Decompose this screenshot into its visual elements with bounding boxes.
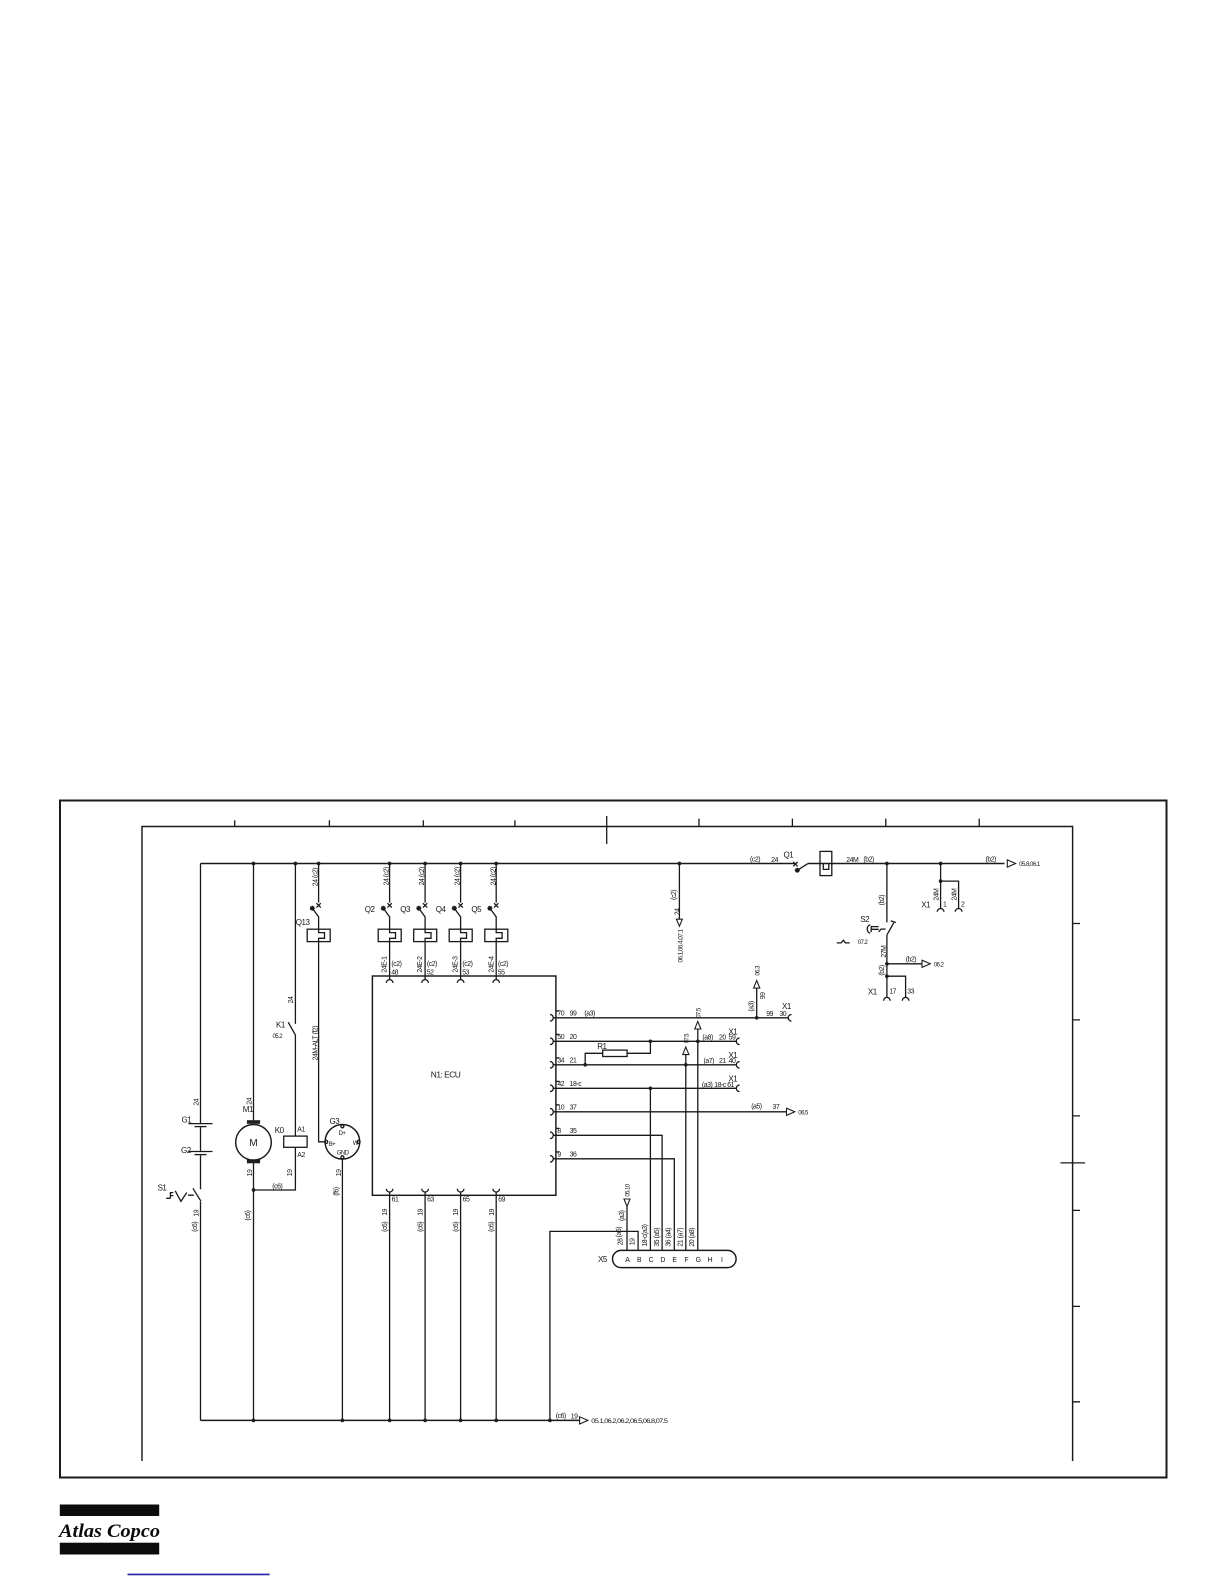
svg-text:65: 65 bbox=[463, 1197, 470, 1204]
ECU pin 53 net 24E-3 (c2) bbox=[453, 956, 473, 983]
svg-text:C: C bbox=[649, 1257, 654, 1264]
node ground bus junctions bbox=[252, 1419, 552, 1423]
node X1 17/33 junction bbox=[885, 974, 889, 978]
svg-text:99: 99 bbox=[766, 1011, 773, 1018]
connector X1 pin 33 bbox=[887, 976, 915, 1001]
svg-text:70: 70 bbox=[557, 1011, 564, 1018]
wire 24 (c2) reference drop bbox=[671, 864, 681, 920]
node 21/R1 junction bbox=[583, 1063, 587, 1067]
wire M1 column 24 bbox=[243, 864, 254, 1121]
svg-text:24M: 24M bbox=[952, 888, 959, 901]
svg-text:36: 36 bbox=[570, 1152, 577, 1159]
relay coil K0 bbox=[275, 1126, 307, 1147]
svg-text:19: 19 bbox=[336, 1169, 343, 1176]
ECU pin 55 net 24E-4 (c2) bbox=[488, 956, 508, 983]
connector X1 pin 30 net 99 bbox=[766, 1002, 792, 1021]
svg-text:A2: A2 bbox=[297, 1152, 305, 1159]
battery G2 bbox=[181, 1146, 213, 1155]
svg-text:G: G bbox=[696, 1257, 701, 1264]
svg-text:(a7): (a7) bbox=[704, 1058, 715, 1065]
off-page arrow down 06.1,06.4,07.1 bbox=[676, 919, 684, 962]
svg-text:63: 63 bbox=[427, 1197, 434, 1204]
breaker Q3 bbox=[400, 903, 436, 941]
svg-text:24M: 24M bbox=[846, 857, 859, 864]
ECU N1 bbox=[372, 976, 556, 1195]
net label 24M (b2) after Q1 bbox=[846, 856, 874, 864]
svg-text:19: 19 bbox=[193, 1209, 200, 1216]
svg-text:06.5: 06.5 bbox=[798, 1110, 809, 1116]
net label (c2) 24 on bus bbox=[750, 856, 779, 864]
svg-text:05.10: 05.10 bbox=[626, 1183, 632, 1196]
svg-text:(c6): (c6) bbox=[382, 1222, 389, 1232]
svg-text:69: 69 bbox=[498, 1197, 505, 1204]
wire 27M below S2 bbox=[881, 935, 888, 964]
svg-text:GND: GND bbox=[337, 1151, 350, 1157]
svg-text:(c2): (c2) bbox=[462, 961, 472, 968]
svg-text:21: 21 bbox=[719, 1058, 726, 1065]
svg-text:G2: G2 bbox=[181, 1146, 192, 1155]
svg-text:06.3: 06.3 bbox=[755, 965, 761, 976]
wire Q4 to ECU bbox=[460, 942, 462, 980]
node 18-c/X5-C junction bbox=[649, 1086, 653, 1090]
motor M1 bbox=[236, 1120, 272, 1163]
svg-text:(b2): (b2) bbox=[879, 965, 886, 976]
svg-text:20 (a8): 20 (a8) bbox=[689, 1228, 696, 1247]
svg-text:(c6): (c6) bbox=[272, 1183, 282, 1190]
svg-text:M: M bbox=[249, 1138, 257, 1149]
svg-text:X1: X1 bbox=[868, 988, 878, 997]
wire net 36 to X5-E bbox=[553, 1159, 674, 1251]
node bus junctions bbox=[252, 862, 943, 866]
svg-text:28: 28 bbox=[618, 1238, 625, 1245]
svg-text:18-c: 18-c bbox=[714, 1082, 727, 1089]
svg-text:05.1,06.2,06.2,06.5,06.8,07.5: 05.1,06.2,06.2,06.5,06.8,07.5 bbox=[591, 1419, 668, 1425]
svg-text:(f6): (f6) bbox=[333, 1187, 340, 1196]
svg-text:30: 30 bbox=[779, 1011, 786, 1018]
ECU pin 63 bbox=[422, 1189, 435, 1204]
ECU pin 8 net 35 bbox=[550, 1128, 577, 1139]
wire battery column 24 bbox=[194, 864, 201, 1421]
svg-text:(c6): (c6) bbox=[453, 1222, 460, 1232]
wire Q2 to ECU bbox=[389, 942, 391, 980]
connector X1 pin 17 bbox=[884, 976, 897, 1001]
wire net 18-c drop to X5-C bbox=[649, 1088, 651, 1250]
wire pin 69 to ground bus (c6) 19 bbox=[488, 1192, 496, 1420]
svg-text:21 (a7): 21 (a7) bbox=[677, 1228, 684, 1247]
switch S2 pull-button 07.2 bbox=[837, 915, 896, 946]
net label 24 (c2) Q4 column bbox=[455, 864, 462, 903]
svg-text:20: 20 bbox=[570, 1034, 577, 1041]
svg-text:06.1,06.4,07.1: 06.1,06.4,07.1 bbox=[679, 928, 685, 962]
svg-text:40: 40 bbox=[729, 1058, 736, 1065]
wire pin 61 to ground bus (c6) 19 bbox=[382, 1192, 390, 1420]
svg-text:Q5: Q5 bbox=[471, 905, 482, 914]
svg-text:24E-3: 24E-3 bbox=[453, 956, 460, 973]
ECU pin 34 net 21 bbox=[550, 1058, 577, 1069]
off-page arrow 06.2 (b2) bbox=[887, 957, 945, 969]
svg-text:07.2: 07.2 bbox=[858, 940, 869, 946]
svg-text:(a3): (a3) bbox=[702, 1082, 713, 1089]
connector X1 pin 1 net 24M bbox=[934, 888, 947, 912]
X5 pin E label 36 (a4) bbox=[666, 1228, 673, 1247]
svg-text:(b2): (b2) bbox=[879, 895, 886, 906]
svg-text:Atlas Copco: Atlas Copco bbox=[58, 1521, 160, 1542]
wire pin 65 to ground bus (c6) 19 bbox=[453, 1192, 461, 1420]
ECU pin 69 bbox=[493, 1189, 506, 1204]
svg-text:D: D bbox=[660, 1257, 665, 1264]
net label 24 (c2) Q3 column bbox=[419, 864, 426, 903]
node 99/riser junction bbox=[755, 1016, 759, 1020]
svg-text:24E-2: 24E-2 bbox=[417, 956, 424, 973]
wire K1 to K0 bbox=[295, 1035, 305, 1136]
svg-text:(c6): (c6) bbox=[556, 1413, 566, 1420]
footer blue rule bbox=[128, 1574, 270, 1576]
wire net 20 (a8) bbox=[553, 1040, 736, 1042]
svg-text:21: 21 bbox=[570, 1058, 577, 1065]
ECU pin 9 net 36 bbox=[550, 1152, 577, 1163]
svg-text:61: 61 bbox=[392, 1197, 399, 1204]
node 20/R1 junction bbox=[649, 1039, 653, 1043]
wire net 37 (a5) to 06.5 bbox=[553, 1104, 809, 1117]
Atlas Copco logo bbox=[58, 1505, 160, 1555]
svg-text:24E-1: 24E-1 bbox=[382, 956, 389, 973]
svg-text:(c2): (c2) bbox=[750, 856, 760, 863]
svg-text:24: 24 bbox=[247, 1097, 254, 1104]
svg-text:19: 19 bbox=[382, 1208, 389, 1215]
svg-text:A1: A1 bbox=[297, 1127, 305, 1134]
X5 pin F label 21 (a7) bbox=[677, 1228, 684, 1247]
wire 24V top bus bbox=[201, 863, 1005, 865]
svg-text:18-c(a3): 18-c(a3) bbox=[642, 1224, 649, 1246]
ECU pin 70 net 99 bbox=[550, 1011, 577, 1022]
svg-text:07.5: 07.5 bbox=[696, 1007, 702, 1018]
svg-text:(a8): (a8) bbox=[702, 1035, 713, 1042]
svg-text:35 (a5): 35 (a5) bbox=[654, 1228, 661, 1247]
ECU pin 10 net 37 bbox=[550, 1105, 577, 1116]
node X1 1/2 split bbox=[939, 879, 943, 883]
connector X1 pin 40 net 21 bbox=[704, 1051, 740, 1068]
ECU pin 61 bbox=[386, 1189, 399, 1204]
svg-text:M1: M1 bbox=[243, 1105, 254, 1114]
connector X1 pin 2 net 24M bbox=[941, 881, 965, 912]
node 20/X5-G junction bbox=[696, 1039, 700, 1043]
off-page arrow up 06.3 net 99 bbox=[749, 965, 767, 1018]
svg-text:Q3: Q3 bbox=[400, 905, 411, 914]
svg-text:99: 99 bbox=[760, 992, 767, 999]
svg-text:24M: 24M bbox=[934, 888, 941, 901]
off-page arrow 05.1,06.2,06.2,06.5,06.8,07.5 bbox=[580, 1417, 669, 1425]
resistor R1 bbox=[585, 1041, 650, 1065]
svg-text:59: 59 bbox=[729, 1035, 736, 1042]
wire (b2) S2 branch bbox=[879, 864, 887, 923]
svg-text:(a3): (a3) bbox=[619, 1210, 626, 1221]
wire net 99 (a3) bbox=[553, 1011, 788, 1018]
svg-text:24: 24 bbox=[288, 996, 295, 1003]
net label 24 (c2) Q13 column bbox=[313, 864, 320, 903]
svg-text:S2: S2 bbox=[860, 915, 870, 924]
wire G3 GND (f6) 19 bbox=[333, 1159, 343, 1421]
svg-text:(c2): (c2) bbox=[391, 961, 401, 968]
circuit breaker Q1 bbox=[784, 851, 832, 876]
label X1 1/2 bbox=[921, 900, 931, 909]
svg-text:10: 10 bbox=[557, 1105, 564, 1112]
svg-text:K0: K0 bbox=[275, 1126, 285, 1135]
svg-text:X1: X1 bbox=[921, 900, 931, 909]
svg-text:Q13: Q13 bbox=[296, 918, 311, 927]
X5 pin D label 35 (a5) bbox=[654, 1228, 661, 1247]
svg-text:Q2: Q2 bbox=[365, 905, 376, 914]
ECU pin 52 net 24E-2 (c2) bbox=[417, 956, 437, 983]
contact K1 05.2 bbox=[273, 1021, 296, 1041]
svg-text:19: 19 bbox=[247, 1169, 254, 1176]
svg-text:H: H bbox=[708, 1257, 713, 1264]
svg-text:S1: S1 bbox=[158, 1184, 168, 1193]
wire M1 to ground bus bbox=[245, 1163, 254, 1420]
svg-text:50: 50 bbox=[557, 1034, 564, 1041]
svg-text:(c2): (c2) bbox=[671, 890, 678, 900]
wire 24M-ALT (f2) to G3 B+ bbox=[313, 942, 325, 1142]
svg-text:24: 24 bbox=[771, 857, 778, 864]
ECU pin 48 net 24E-1 (c2) bbox=[382, 956, 402, 983]
svg-text:(a3): (a3) bbox=[584, 1011, 595, 1018]
node M1/K0 junction bbox=[252, 1188, 256, 1192]
X5 pin C label 18-c(a3) bbox=[642, 1224, 649, 1246]
wire K1 column 24 bbox=[288, 864, 296, 1024]
svg-text:24E-4: 24E-4 bbox=[488, 956, 495, 973]
svg-text:24: 24 bbox=[194, 1098, 201, 1105]
svg-text:37: 37 bbox=[773, 1104, 780, 1111]
battery G1 bbox=[182, 1116, 213, 1127]
svg-text:(a5): (a5) bbox=[751, 1104, 762, 1111]
svg-text:17: 17 bbox=[889, 989, 896, 996]
svg-text:05.2: 05.2 bbox=[273, 1034, 284, 1040]
svg-text:(b2): (b2) bbox=[986, 856, 997, 863]
wire K0-A2 link (c6) bbox=[254, 1147, 306, 1190]
net label 24 (c2) Q2 column bbox=[384, 864, 391, 903]
wire (b2) to X1 17/33 bbox=[879, 964, 887, 976]
wire 24M to X1 1/2 bbox=[940, 864, 942, 909]
net label 24 (c2) Q5 column bbox=[490, 864, 497, 903]
ECU pin 50 net 20 bbox=[550, 1034, 577, 1045]
svg-text:37: 37 bbox=[570, 1105, 577, 1112]
svg-text:27M: 27M bbox=[881, 945, 888, 958]
wire Q5 to ECU bbox=[495, 942, 497, 980]
breaker Q2 bbox=[365, 903, 401, 941]
off-page arrow 05.8,06.1 (b2) at bus right end bbox=[986, 856, 1041, 868]
label X1 17/33 bbox=[868, 988, 878, 997]
svg-text:07.5: 07.5 bbox=[684, 1033, 690, 1044]
svg-text:20: 20 bbox=[719, 1035, 726, 1042]
wire ground bus (c6) 19 bbox=[201, 1413, 580, 1420]
svg-text:(b2): (b2) bbox=[906, 957, 917, 964]
svg-text:24: 24 bbox=[674, 908, 681, 915]
svg-text:(a3): (a3) bbox=[749, 1001, 756, 1012]
wire Q3 to ECU bbox=[424, 942, 426, 980]
wire net 20 drop to X5-G bbox=[697, 1041, 699, 1250]
svg-text:18-c: 18-c bbox=[570, 1081, 583, 1088]
connector X1 pin 59 net 20 bbox=[702, 1027, 739, 1044]
off-page arrow up 07.5 net 20 bbox=[695, 1007, 703, 1041]
svg-text:(a6): (a6) bbox=[616, 1227, 623, 1238]
svg-text:X1: X1 bbox=[782, 1002, 792, 1011]
svg-text:F: F bbox=[684, 1257, 688, 1264]
ECU pin 42 net 18-c bbox=[550, 1081, 582, 1092]
ECU pin 65 bbox=[457, 1189, 470, 1204]
connector X1 pin 61 net 18-c bbox=[702, 1074, 740, 1091]
svg-text:61: 61 bbox=[727, 1082, 734, 1089]
svg-text:(c6): (c6) bbox=[488, 1222, 495, 1232]
alternator G3 bbox=[325, 1117, 360, 1159]
svg-text:(c6): (c6) bbox=[192, 1222, 199, 1232]
X5 pin A net 28 (a6)(a3) from 05.10 bbox=[616, 1183, 632, 1250]
node 27M junction bbox=[885, 962, 889, 966]
svg-text:N1: ECU: N1: ECU bbox=[431, 1070, 461, 1080]
svg-text:K1: K1 bbox=[276, 1021, 286, 1030]
svg-text:W: W bbox=[353, 1141, 359, 1147]
svg-text:06.2: 06.2 bbox=[934, 962, 945, 968]
svg-text:B+: B+ bbox=[329, 1142, 336, 1148]
node 21/X5-F junction bbox=[684, 1063, 688, 1067]
svg-text:Q1: Q1 bbox=[784, 851, 795, 860]
svg-text:19: 19 bbox=[287, 1169, 294, 1176]
svg-text:(b2): (b2) bbox=[863, 856, 874, 863]
wire pin 63 to ground bus (c6) 19 bbox=[417, 1192, 425, 1420]
svg-text:33: 33 bbox=[907, 989, 914, 996]
svg-text:99: 99 bbox=[570, 1011, 577, 1018]
X5 pin B net 19 from ground bus bbox=[550, 1231, 638, 1420]
svg-text:35: 35 bbox=[570, 1128, 577, 1135]
svg-text:34: 34 bbox=[557, 1058, 564, 1065]
svg-text:D+: D+ bbox=[339, 1131, 347, 1137]
svg-text:(c2): (c2) bbox=[498, 961, 508, 968]
svg-text:X5: X5 bbox=[598, 1255, 608, 1264]
breaker Q4 bbox=[436, 903, 472, 941]
wire net 21 drop to X5-F bbox=[685, 1065, 687, 1251]
off-page arrow up 07.5 net 21 bbox=[683, 1033, 691, 1065]
svg-text:19: 19 bbox=[629, 1238, 636, 1245]
wire net 35 to X5-D bbox=[553, 1135, 662, 1250]
svg-text:05.8,06.1: 05.8,06.1 bbox=[1019, 862, 1041, 868]
svg-text:(c2): (c2) bbox=[427, 961, 437, 968]
breaker Q13 bbox=[296, 903, 330, 941]
switch S1 battery isolator bbox=[158, 1184, 201, 1202]
X5 pin G label 20 (a8) bbox=[689, 1228, 696, 1247]
svg-text:36 (a4): 36 (a4) bbox=[666, 1228, 673, 1247]
net label 19 (c6) battery column bbox=[192, 1209, 201, 1232]
svg-text:(c6): (c6) bbox=[245, 1210, 252, 1220]
wire net 21 (a7) bbox=[553, 1064, 736, 1066]
svg-text:24M-ALT (f2): 24M-ALT (f2) bbox=[313, 1026, 320, 1061]
svg-text:19: 19 bbox=[453, 1208, 460, 1215]
wire net 18-c (a3) bbox=[553, 1087, 736, 1089]
svg-text:19: 19 bbox=[489, 1208, 496, 1215]
svg-text:42: 42 bbox=[557, 1081, 564, 1088]
svg-text:(c6): (c6) bbox=[417, 1222, 424, 1232]
breaker Q5 bbox=[471, 903, 507, 941]
connector X5 bbox=[598, 1250, 736, 1267]
svg-text:19: 19 bbox=[571, 1414, 578, 1421]
svg-text:Q4: Q4 bbox=[436, 905, 447, 914]
svg-text:19: 19 bbox=[418, 1208, 425, 1215]
